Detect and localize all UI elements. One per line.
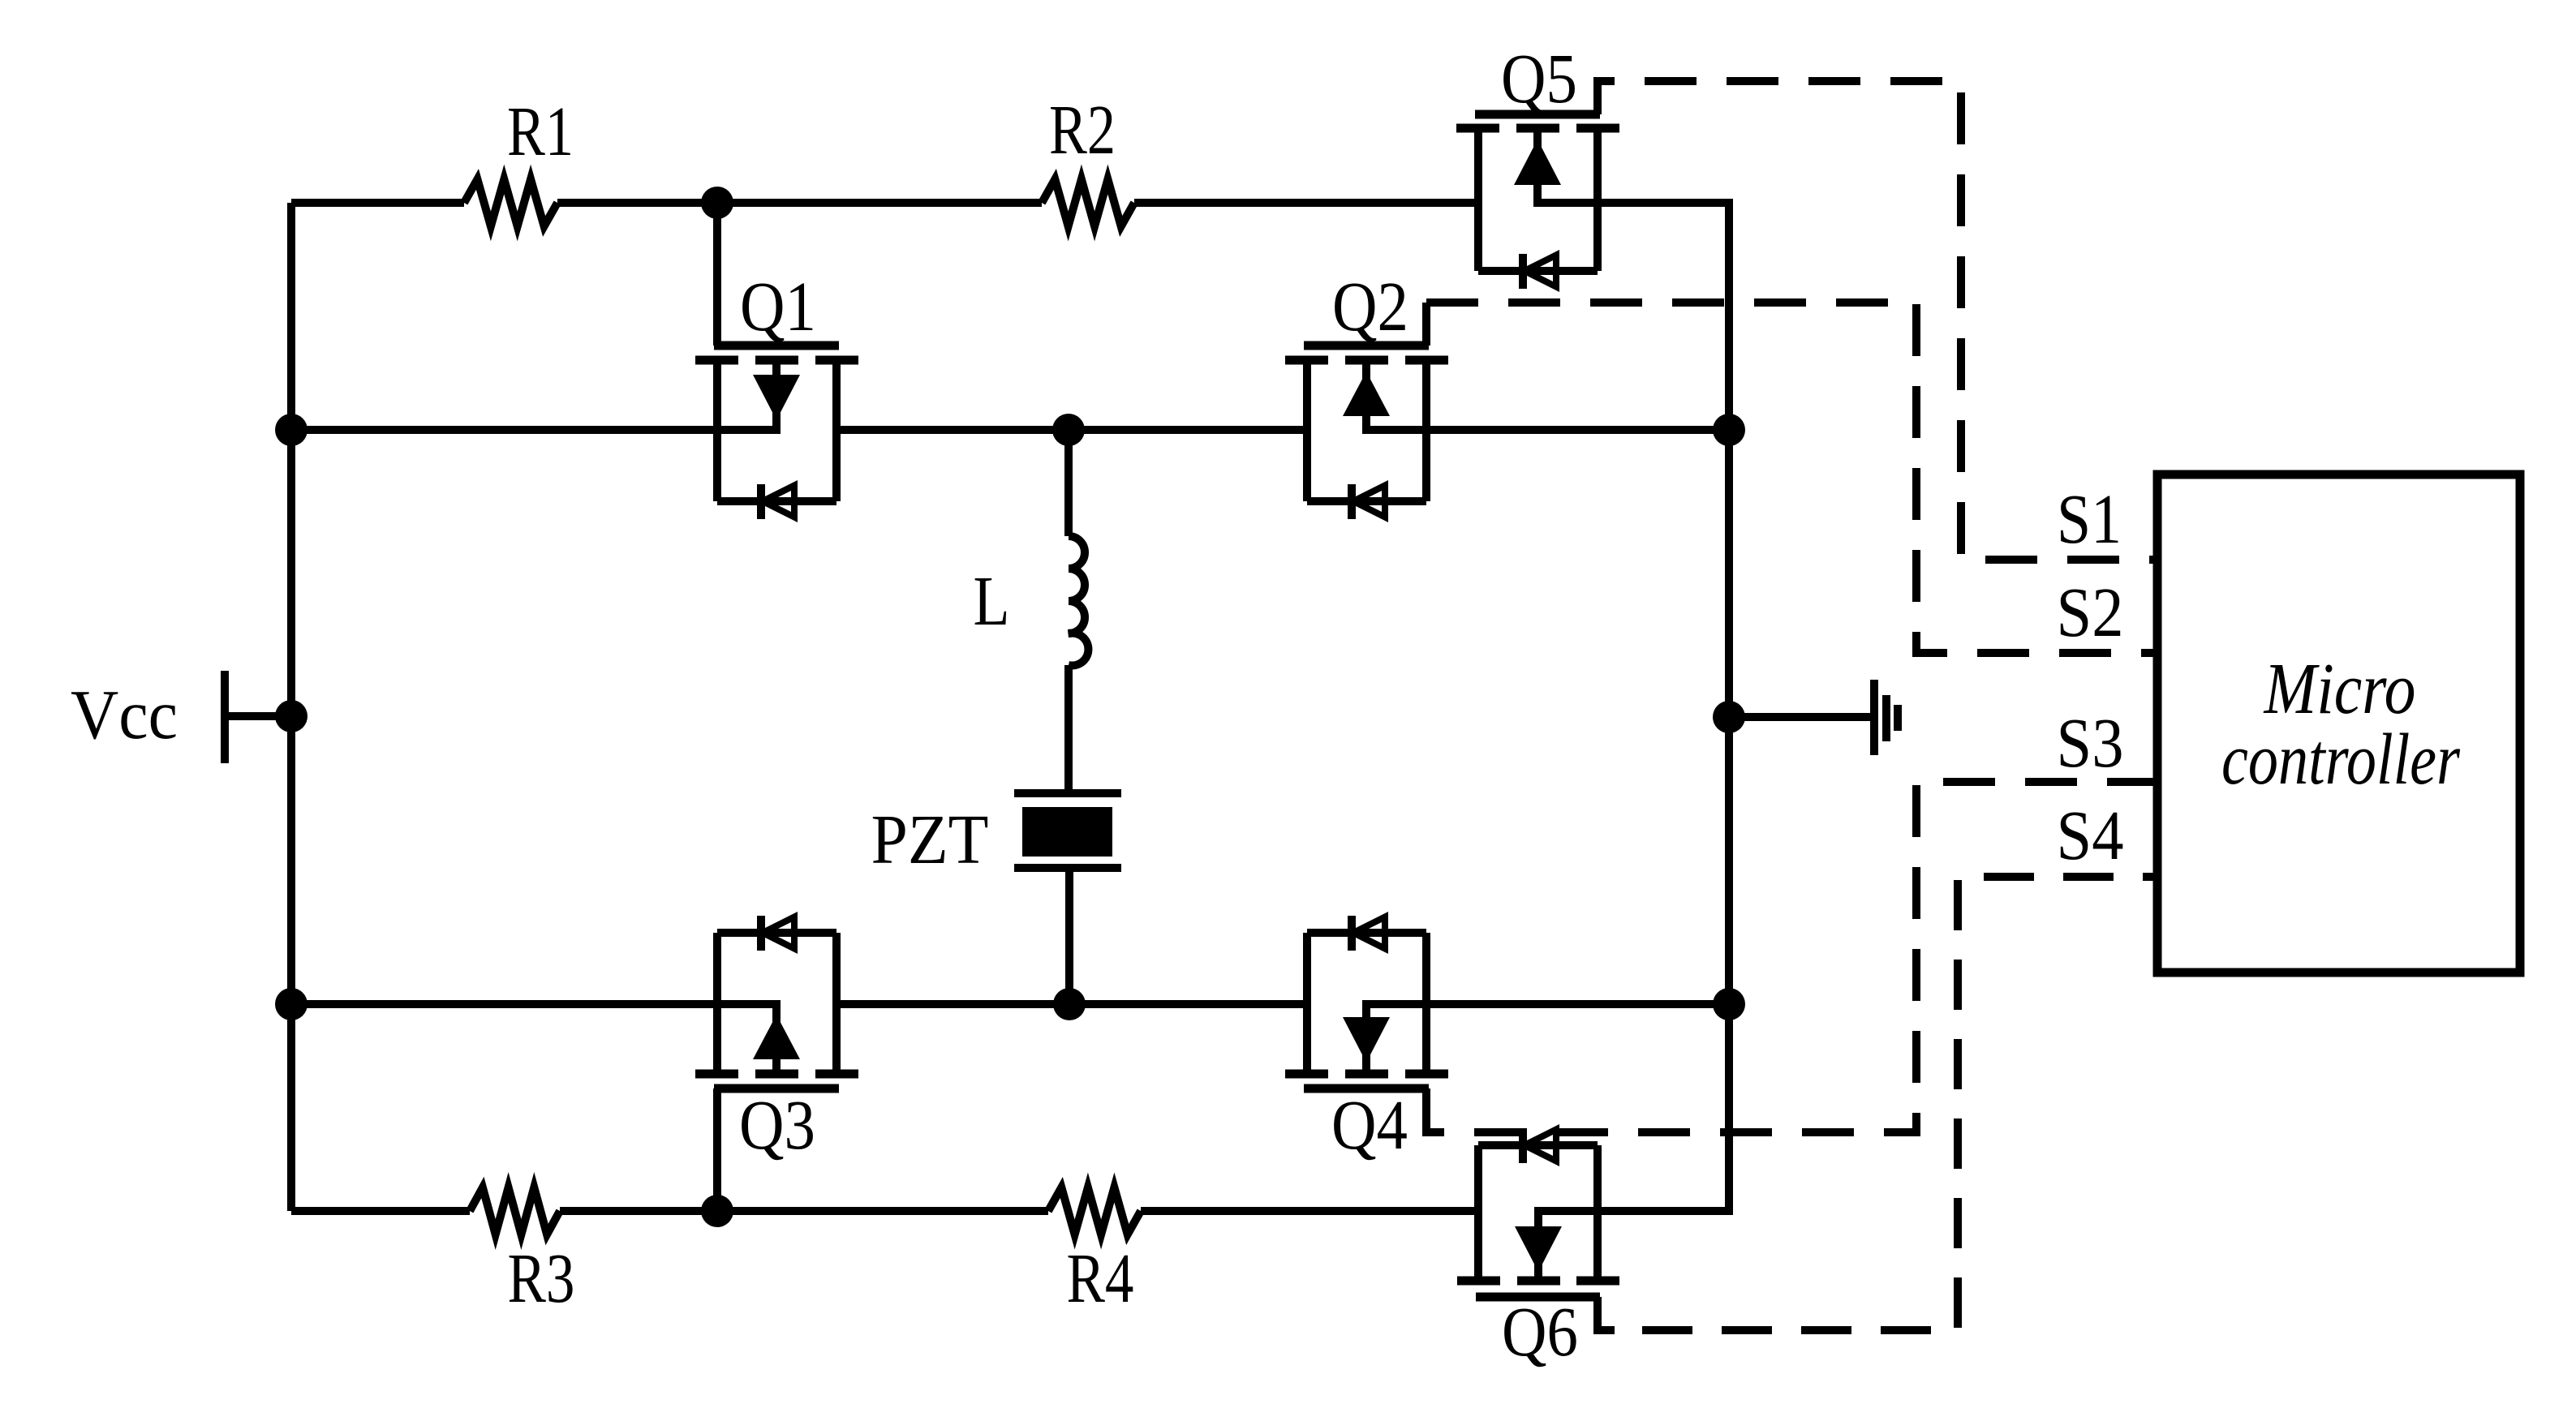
svg-text:R2: R2 [1049,90,1116,169]
microcontroller U1 box [2157,474,2520,972]
node Vcc junction [275,700,307,732]
Vcc supply bar [221,671,229,763]
node lower rail right corner [1713,988,1745,1020]
resistor R1 [464,179,557,226]
node lower rail PZT tap [1053,988,1086,1020]
transistor Q5 [1456,81,1619,289]
svg-text:Q4: Q4 [1331,1085,1408,1164]
transducer PZT body [1022,807,1112,857]
svg-text:Q5: Q5 [1501,39,1577,118]
transducer PZT bottom plate [1014,864,1121,872]
svg-text:R4: R4 [1067,1239,1134,1317]
wire Q6 source to lower rail corner [1534,1004,1729,1211]
resistor R4 [1048,1187,1141,1234]
svg-text:Q2: Q2 [1332,267,1408,346]
wire bottom rail left segment [291,1207,470,1215]
wire lower bridge rail left segment [291,1000,781,1008]
wire dashed S1 control line (Q5 gate to microcontroller) [1615,81,2157,560]
wire lower bridge rail right segment [1362,1000,1729,1008]
inductor L [1069,536,1088,666]
svg-text:Q6: Q6 [1502,1292,1578,1371]
transistor Q6 [1457,1128,1619,1330]
svg-text:controller: controller [2221,719,2461,800]
wire upper bridge rail middle segment [836,426,1307,434]
svg-text:PZT: PZT [871,800,989,878]
transistor Q4 [1285,916,1448,1132]
wire dashed S3 control line (microcontroller to Q4 gate) [1444,782,2157,1132]
wire PZT to lower rail [1065,868,1073,1004]
wire dashed S4 control line (microcontroller to Q6 gate) [1615,877,2157,1330]
svg-text:R3: R3 [508,1239,575,1317]
resistor R2 [1042,179,1134,226]
svg-text:Q1: Q1 [740,267,816,346]
svg-text:S2: S2 [2057,573,2124,651]
transistor Q2 [1285,303,1448,519]
resistor R3 [470,1187,560,1234]
transistor Q1 [695,203,858,519]
wire Q5 source to right rail corner [1533,203,1729,430]
node lower rail at Vcc rail [275,988,307,1020]
svg-text:Vcc: Vcc [71,675,178,754]
wire upper bridge rail right segment [1362,426,1729,434]
wire upper bridge rail left segment [291,426,781,434]
wire right rail vertical [1725,430,1733,1004]
wire ground lead [1729,713,1871,721]
svg-text:Micro: Micro [2263,649,2416,729]
svg-text:S4: S4 [2057,796,2124,874]
node R3-R4-Q3 gate junction [701,1195,733,1227]
wire top rail right segment (R2 to Q5 drain) [1134,199,1478,207]
node R1-R2-Q1 gate junction [701,187,733,219]
wire inductor top lead [1064,430,1073,536]
wire bottom rail middle segment [560,1207,1048,1215]
wire inductor to PZT [1064,665,1073,793]
node upper rail right corner [1713,414,1745,446]
wire top rail left segment (Vcc rail to R1) [291,199,464,207]
node upper rail inductor tap [1052,414,1085,446]
transistor Q3 [695,916,858,1211]
node upper rail at Vcc rail [275,414,307,446]
wire lower bridge rail middle segment [836,1000,1307,1008]
transducer PZT top plate [1014,789,1121,797]
svg-text:R1: R1 [507,92,574,170]
wire left Vcc rail vertical [287,203,295,1211]
svg-text:L: L [974,561,1010,640]
ground [1874,680,1898,755]
svg-text:S1: S1 [2057,479,2122,558]
node ground junction [1713,701,1745,733]
svg-text:S3: S3 [2057,703,2124,782]
wire top rail middle segment (R1 to R2 through gate node) [557,199,1042,207]
wire dashed S2 control line (Q2 gate to microcontroller) [1426,303,2157,653]
wire bottom rail right segment (R4 to Q6 drain) [1141,1207,1478,1215]
wire Vcc bar to rail [225,712,291,720]
svg-text:Q3: Q3 [739,1085,815,1164]
